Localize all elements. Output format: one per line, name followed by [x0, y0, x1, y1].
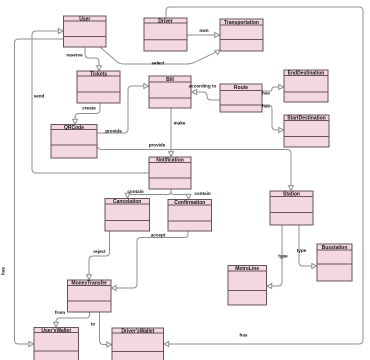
svg-text:has: has	[262, 104, 270, 109]
label contain	[194, 191, 211, 196]
edge has Route-EndDestination	[262, 85, 284, 92]
svg-text:Busstation: Busstation	[322, 245, 348, 251]
svg-text:has: has	[240, 333, 248, 338]
svg-text:type: type	[297, 248, 307, 253]
edge type Station-Busstation	[299, 225, 317, 269]
svg-text:Confirmation: Confirmation	[174, 200, 205, 206]
svg-text:Station: Station	[283, 192, 300, 198]
edge contain Notification-Cancelation	[125, 189, 171, 198]
edge has User-UsersWallet	[15, 39, 64, 347]
label according to	[189, 84, 217, 89]
svg-text:User'sWallet: User'sWallet	[41, 328, 71, 334]
edge to MoneyTransfer-DriversWallet	[100, 312, 112, 347]
class MetroLine	[228, 266, 267, 306]
edge accordingto Route-Bill	[192, 90, 220, 101]
svg-text:from: from	[55, 310, 65, 315]
svg-text:User: User	[79, 16, 90, 22]
edge provide QRCode-Bill	[97, 84, 149, 134]
svg-text:provide: provide	[149, 143, 166, 148]
edge create Tickets-QRCode	[73, 103, 101, 124]
label contain	[127, 189, 144, 194]
svg-text:Notification: Notification	[156, 158, 184, 164]
svg-text:accept: accept	[151, 233, 166, 238]
edge own Driver-Transportation	[187, 33, 220, 38]
edge accept Confirmation-MoneyTransfer	[112, 231, 189, 291]
svg-text:according to: according to	[189, 84, 217, 89]
svg-text:provide: provide	[105, 129, 122, 134]
svg-text:create: create	[82, 106, 96, 111]
svg-text:send: send	[34, 94, 45, 99]
class StartDestination	[284, 115, 329, 147]
svg-text:MetroLine: MetroLine	[235, 266, 259, 272]
svg-text:make: make	[174, 121, 186, 126]
class Busstation	[317, 244, 352, 281]
class Cancelation	[105, 199, 150, 232]
svg-text:contain: contain	[194, 191, 211, 196]
label reserve	[66, 53, 83, 58]
edge reserve User-Tickets	[85, 47, 102, 71]
label from	[55, 310, 65, 315]
edge contain Notification-Confirmation	[171, 189, 191, 199]
label accept	[151, 233, 166, 238]
class MoneyTransfer	[68, 280, 112, 312]
svg-text:MoneyTransfer: MoneyTransfer	[71, 281, 107, 287]
class QRCode	[51, 125, 97, 159]
class Route	[220, 84, 262, 112]
svg-text:Cancelation: Cancelation	[113, 199, 141, 205]
label create	[82, 106, 96, 111]
svg-text:contain: contain	[127, 189, 144, 194]
label provide	[105, 129, 122, 134]
edge make Bill-Notification	[169, 108, 174, 157]
edge select User-Transportation	[100, 47, 220, 64]
class Bill	[149, 76, 191, 108]
svg-text:Driver: Driver	[158, 18, 173, 24]
label has (right)	[240, 333, 248, 338]
edge has Driver-DriversWallet	[164, 7, 363, 347]
class Confirmation	[168, 200, 212, 232]
svg-text:Route: Route	[234, 85, 248, 91]
label has (left)	[1, 267, 6, 275]
label make	[174, 121, 186, 126]
svg-text:has: has	[1, 267, 6, 275]
edge type Station-MetroLine	[267, 225, 282, 289]
label has	[262, 91, 270, 96]
svg-text:Driver'sWallet: Driver'sWallet	[121, 328, 154, 334]
class User	[64, 16, 107, 47]
class Tickets	[77, 71, 120, 103]
class Station	[270, 191, 313, 225]
svg-text:Transportation: Transportation	[224, 20, 259, 26]
svg-text:reserve: reserve	[66, 53, 83, 58]
label type	[278, 254, 288, 259]
svg-text:StartDestination: StartDestination	[287, 116, 326, 122]
class UsersWallet	[34, 328, 79, 360]
label to	[91, 322, 96, 327]
edge from MoneyTransfer-UsersWallet	[54, 312, 90, 327]
class EndDestination	[284, 70, 328, 102]
label own	[199, 28, 208, 33]
svg-text:Tickets: Tickets	[90, 71, 107, 77]
label send	[34, 94, 45, 99]
edge reject Cancelation-MoneyTransfer	[87, 231, 110, 280]
label select	[151, 61, 164, 66]
svg-text:own: own	[199, 28, 208, 33]
edge send Notification-User	[32, 29, 149, 174]
svg-text:has: has	[262, 91, 270, 96]
class Notification	[149, 157, 191, 189]
class Transportation	[220, 19, 263, 51]
svg-text:select: select	[151, 61, 164, 66]
edge has Route-StartDestination	[262, 105, 284, 133]
svg-text:Bill: Bill	[166, 77, 174, 83]
svg-text:reject: reject	[93, 249, 106, 254]
label provide	[149, 143, 166, 148]
label type	[297, 248, 307, 253]
label reject	[93, 249, 106, 254]
edge provide QRCode-Station	[97, 147, 294, 191]
class DriversWallet	[112, 328, 164, 360]
svg-text:EndDestination: EndDestination	[288, 71, 325, 77]
svg-text:to: to	[91, 322, 96, 327]
svg-text:type: type	[278, 254, 288, 259]
class Driver	[144, 18, 187, 51]
label has	[262, 104, 270, 109]
svg-text:QRCode: QRCode	[64, 125, 84, 131]
